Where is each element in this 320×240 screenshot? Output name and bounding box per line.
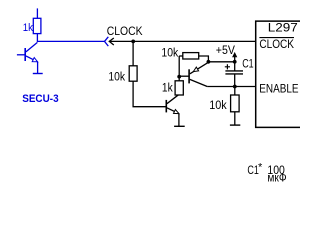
transistor Q2 (NPN) base bar: [165, 100, 167, 113]
resistor 10k (ENABLE pull-down): [231, 95, 240, 112]
resistor 10k (horizontal, Q3 base-emitter): [183, 53, 199, 59]
wire (Q3 emitter): [190, 62, 208, 73]
C1 polarity plus: [225, 64, 230, 69]
svg-text:CLOCK: CLOCK: [107, 24, 143, 38]
junction (ENABLE / C1 node): [233, 85, 237, 89]
ground (R4): [230, 124, 240, 126]
Q1 emitter arrow: [32, 58, 37, 62]
wire ENABLE net: [207, 86, 255, 88]
pin label CLOCK (with negation overline): [259, 37, 294, 39]
Q2 emitter arrow: [174, 110, 179, 114]
+5V terminal: [233, 53, 237, 57]
wire (Q2 emitter stub): [178, 114, 180, 127]
svg-text:CLOCK: CLOCK: [259, 37, 294, 51]
transistor Q1 (NPN, SECU-3 output) base bar: [24, 48, 26, 61]
wire (C1 bottom stub): [234, 75, 236, 87]
wire (Q1 emitter stub): [37, 62, 39, 74]
wire (R4 bottom stub): [234, 112, 236, 125]
svg-text:10k: 10k: [209, 100, 227, 112]
wire (1k top to base rail dot): [178, 56, 180, 81]
wire (resistor bottom to clock node): [37, 34, 104, 42]
wire (Q2 collector): [167, 94, 179, 103]
junction (Q3 base node): [177, 75, 181, 79]
wire (Q2 emitter): [167, 108, 179, 114]
wire (+5V rail): [208, 61, 234, 63]
wire (Q1 collector): [26, 42, 38, 52]
capacitor C1 plate (bottom): [225, 73, 243, 75]
IC U1 L297 box: [256, 21, 301, 127]
svg-text:ENABLE: ENABLE: [259, 84, 299, 96]
connector (blue fork, male): [105, 37, 109, 46]
svg-text:10k: 10k: [161, 48, 178, 60]
ground (Q1 emitter): [33, 73, 43, 75]
junction (+5V / C1 node): [233, 60, 237, 64]
svg-text:+5V: +5V: [216, 45, 235, 57]
svg-text:SECU-3: SECU-3: [22, 93, 58, 105]
capacitor C1 plate (top): [225, 70, 243, 72]
wire (10k right lead to +5V rail): [199, 56, 209, 62]
wire (Q1 emitter): [26, 56, 38, 62]
wire (Q1 base lead): [17, 54, 25, 56]
wire (Q3 collector): [190, 79, 207, 86]
svg-text:мкФ: мкФ: [267, 173, 286, 185]
wire (to R4): [234, 87, 236, 96]
wire (blue collector pull-up top): [36, 8, 38, 18]
svg-text:*: *: [258, 162, 263, 174]
resistor 1k (Q2 collector): [175, 81, 183, 95]
svg-text:1k: 1k: [23, 22, 34, 34]
wire CLOCK net: [109, 40, 255, 42]
svg-text:10k: 10k: [108, 72, 125, 84]
resistor 10k (base of Q2): [129, 66, 137, 81]
wire (10k left lead): [179, 55, 183, 57]
wire (down to R2): [132, 41, 134, 65]
connector arrow (black, female): [109, 38, 114, 45]
svg-text:C1: C1: [242, 57, 254, 71]
Q3 emitter arrow: [193, 67, 198, 72]
junction (Q3 emitter node): [207, 60, 211, 64]
junction (clock node): [131, 40, 135, 44]
svg-text:1k: 1k: [162, 82, 173, 94]
transistor Q3 (PNP) base bar: [188, 69, 190, 83]
svg-text:L297: L297: [268, 20, 298, 34]
wire (C1 top stub): [234, 62, 236, 71]
ground (Q2 emitter): [174, 125, 185, 127]
resistor 1k (blue, SECU-3 side): [33, 18, 41, 33]
wire (R2 to Q2 base): [133, 81, 166, 107]
wire (Q3 base lead): [179, 75, 189, 77]
